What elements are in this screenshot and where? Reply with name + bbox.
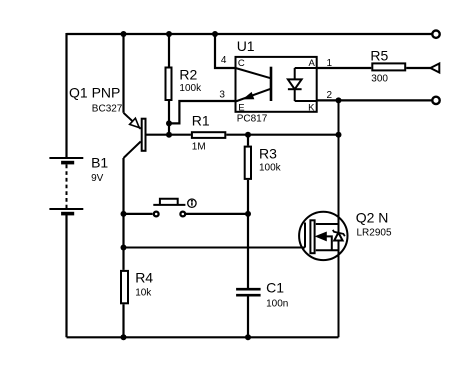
Q2 internals: [305, 220, 345, 253]
node bottom/C1: [245, 334, 251, 340]
svg-text:9V: 9V: [91, 173, 104, 184]
wire R4 bottom: [122, 304, 124, 337]
wire Q1 emitter vertical: [122, 34, 124, 113]
wire pin2 to terminal: [317, 99, 432, 101]
svg-text:U1: U1: [237, 38, 255, 54]
svg-text:LR2905: LR2905: [357, 227, 392, 238]
capacitor C1: [236, 289, 261, 295]
node top/R2: [166, 31, 172, 37]
wire gate: [124, 247, 306, 249]
U1 LED: [288, 68, 317, 101]
wire pin1 to R5: [317, 67, 372, 69]
terminal top right: [432, 31, 439, 38]
svg-text:100k: 100k: [259, 163, 282, 174]
wire pin3 branch: [169, 101, 236, 123]
node top/emitter: [121, 31, 127, 37]
resistor R1: [192, 132, 225, 138]
svg-text:R2: R2: [179, 66, 197, 82]
node R2/pin3: [166, 120, 172, 126]
wire pin4: [215, 34, 236, 68]
svg-text:1: 1: [327, 58, 333, 69]
svg-text:E: E: [238, 103, 244, 114]
svg-text:300: 300: [371, 74, 388, 85]
svg-text:10k: 10k: [135, 287, 152, 298]
connector triangle: [430, 64, 439, 73]
node collector/button: [121, 211, 127, 217]
wire R3 to C1: [247, 180, 249, 289]
wire Q1 base to R1: [146, 134, 191, 136]
resistor R4: [121, 271, 128, 303]
wire R3 top: [247, 135, 249, 146]
push button S1: [153, 199, 185, 217]
transistor Q2 MOSFET: [299, 212, 347, 260]
wire R2 bottom: [168, 101, 170, 135]
svg-text:BC327: BC327: [92, 103, 123, 114]
svg-text:Q1 PNP: Q1 PNP: [69, 85, 120, 101]
wire R1 right: [226, 134, 338, 136]
svg-text:Q2 N: Q2 N: [356, 210, 389, 226]
svg-text:C1: C1: [266, 280, 284, 296]
svg-text:B1: B1: [91, 155, 108, 171]
svg-text:4: 4: [221, 55, 227, 66]
U1 phototransistor: [236, 67, 272, 102]
node bottom/R4: [121, 334, 127, 340]
node R1/drain: [336, 132, 342, 138]
svg-text:R3: R3: [259, 146, 277, 162]
transistor Q1: [124, 113, 146, 158]
wire button right: [186, 213, 248, 215]
node pin2/drain: [336, 97, 342, 103]
svg-text:1M: 1M: [192, 141, 206, 152]
svg-text:PC817: PC817: [237, 114, 268, 125]
wire top rail: [67, 33, 432, 35]
svg-text:2: 2: [327, 90, 333, 101]
wire C1 bottom: [247, 296, 249, 337]
node R1/R3: [245, 132, 251, 138]
svg-text:C: C: [238, 58, 245, 69]
svg-text:R1: R1: [192, 113, 210, 129]
svg-text:R4: R4: [135, 270, 153, 286]
wire drain-source vertical: [338, 100, 340, 337]
battery B1: [49, 158, 83, 214]
svg-text:100k: 100k: [179, 83, 202, 94]
resistor R2: [166, 68, 172, 101]
op-amp U1 optocoupler PC817 box: [236, 57, 317, 112]
svg-text:A: A: [309, 58, 316, 69]
wire battery to bottom rail: [65, 213, 67, 337]
svg-text:K: K: [308, 103, 315, 114]
wire left vertical to battery: [65, 33, 67, 158]
node R2/base: [166, 132, 172, 138]
svg-text:100n: 100n: [266, 298, 288, 309]
wire bottom rail: [67, 336, 339, 338]
node top/pin4: [212, 31, 218, 37]
wire Q1 collector vertical: [122, 158, 124, 270]
wire button left: [124, 213, 153, 215]
terminal right: [432, 97, 439, 104]
svg-text:3: 3: [219, 89, 225, 100]
wire R2 top: [168, 34, 170, 67]
resistor R5: [372, 63, 405, 70]
node collector/gate: [121, 245, 127, 251]
resistor R3: [245, 147, 251, 179]
wire R5 to connector: [406, 67, 430, 69]
svg-text:R5: R5: [370, 48, 388, 64]
node button/R3: [245, 211, 251, 217]
